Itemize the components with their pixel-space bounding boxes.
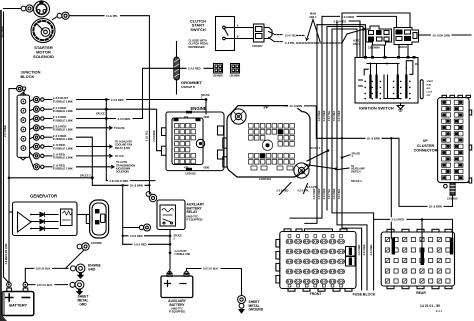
generator winding triangle bbox=[18, 212, 32, 232]
wire bundle v5 bbox=[337, 21, 367, 290]
svg-text:FRONT: FRONT bbox=[310, 292, 323, 296]
aux battery plus bbox=[165, 281, 171, 287]
terminal ring junction block top bbox=[9, 86, 26, 96]
rear connector bus bars bbox=[392, 238, 454, 266]
svg-text:0 4 1: 0 4 1 bbox=[436, 309, 442, 313]
engine 60A pad bbox=[186, 111, 192, 114]
wire junction row 3 2-1.0 RED bbox=[44, 118, 52, 120]
svg-text:20-.8 BRN: 20-.8 BRN bbox=[290, 104, 303, 108]
wire battery positive feed bbox=[4, 12, 9, 283]
svg-text:2-3.0 RED: 2-3.0 RED bbox=[342, 15, 355, 19]
ignition switch left hook bbox=[359, 69, 369, 86]
svg-text:BATTERY: BATTERY bbox=[169, 303, 185, 307]
battery box bbox=[2, 288, 34, 316]
svg-text:BLOCK: BLOCK bbox=[21, 74, 35, 79]
engine inner connector bbox=[172, 118, 205, 165]
svg-text:2-3.0 RED: 2-3.0 RED bbox=[339, 110, 341, 121]
svg-text:SPLICE 2: SPLICE 2 bbox=[351, 180, 362, 183]
svg-text:12045898: 12045898 bbox=[91, 242, 102, 245]
terminal ring junction row 2 bbox=[33, 106, 44, 112]
ignition switch position bracket bbox=[420, 80, 423, 99]
svg-text:FUSIBLE LINK: FUSIBLE LINK bbox=[53, 137, 74, 141]
svg-text:12020163: 12020163 bbox=[185, 173, 196, 176]
splice 2 right of I/P bbox=[307, 151, 328, 162]
faint print artifact bbox=[420, 304, 442, 313]
svg-text:RUN: RUN bbox=[427, 84, 432, 86]
svg-text:A: A bbox=[237, 23, 239, 27]
svg-text:600B: 600B bbox=[204, 116, 210, 119]
svg-text:600B: 600B bbox=[204, 167, 210, 170]
engine connector corner labels bbox=[184, 116, 209, 169]
terminal ring solenoid output bbox=[53, 12, 70, 19]
svg-text:2: 2 bbox=[174, 238, 176, 240]
wire row5 to generator splice bbox=[77, 137, 93, 178]
sheet metal ground symbol bbox=[238, 296, 246, 314]
svg-text:REAR: REAR bbox=[416, 291, 426, 295]
label SHEET METAL GROUND bbox=[249, 300, 264, 312]
svg-text:12034986: 12034986 bbox=[230, 75, 241, 78]
svg-text:2-3.0 RED: 2-3.0 RED bbox=[371, 244, 373, 255]
rear connector body bbox=[381, 229, 454, 288]
terminal node battery positive bbox=[7, 282, 12, 287]
svg-text:2-8 RED FUS LINK: 2-8 RED FUS LINK bbox=[5, 243, 8, 264]
starter motor solenoid upper body bbox=[34, 0, 50, 17]
engine connector outer bbox=[162, 112, 225, 171]
wire junction block feed bbox=[8, 89, 10, 283]
MAN ONLY marker bbox=[297, 12, 321, 42]
wire junction row 1 2-3.0 RUST bbox=[44, 99, 52, 101]
headlamp splice junction bbox=[335, 168, 338, 171]
connector 12010996 bbox=[366, 26, 392, 45]
terminal ring junction row 7 bbox=[33, 153, 44, 159]
svg-text:0.5-0 BLK: 0.5-0 BLK bbox=[334, 110, 336, 121]
svg-text:CONNECTOR: CONNECTOR bbox=[414, 149, 438, 153]
wire 2-8.0 BLK RED bbox=[106, 180, 155, 182]
svg-text:SPLICE 2: SPLICE 2 bbox=[80, 174, 91, 177]
wire top run6 bbox=[332, 29, 357, 58]
svg-text:B: B bbox=[237, 34, 239, 38]
terminal ring solenoid left bbox=[21, 5, 33, 12]
svg-text:GENERATOR: GENERATOR bbox=[30, 194, 58, 199]
svg-text:1A 0 RED: 1A 0 RED bbox=[0, 26, 4, 38]
wire 2-3.0 RED top run2 bbox=[322, 16, 397, 27]
terminal node battery negative bbox=[23, 282, 28, 287]
terminal ring junction row 5 bbox=[33, 134, 44, 140]
svg-text:FUSIBLE LINK: FUSIBLE LINK bbox=[53, 128, 74, 132]
wires switch to connector bbox=[235, 28, 254, 39]
svg-text:SPLICE 2: SPLICE 2 bbox=[310, 147, 321, 150]
svg-text:2-8.0 RED: 2-8.0 RED bbox=[134, 243, 147, 247]
wire 2-8.0 RED upper bbox=[123, 235, 170, 237]
svg-text:100 0.5 BLK: 100 0.5 BLK bbox=[37, 283, 52, 287]
junction block stud holes bbox=[21, 99, 26, 151]
svg-text:FUSIBLE LINK: FUSIBLE LINK bbox=[53, 167, 74, 171]
splice 4 junction bbox=[341, 156, 344, 159]
wire cluster tail bbox=[452, 195, 454, 206]
wire generator output to connector bbox=[77, 214, 87, 216]
terminal ring junction row 4 bbox=[33, 125, 44, 131]
wire bundle v1 bbox=[305, 25, 317, 224]
grommet body bbox=[174, 57, 180, 80]
svg-text:4: 4 bbox=[352, 155, 354, 158]
wire relay feed branch bbox=[122, 185, 124, 244]
terminal ring aux relay top bbox=[146, 192, 157, 202]
splice 2 junction on bundle bbox=[327, 149, 330, 152]
wire junction row 8 2-.8 RED bbox=[44, 166, 52, 168]
switch contacts bbox=[223, 26, 235, 40]
ignition switch lower contacts bbox=[384, 75, 401, 99]
svg-text:2-3.0 RED: 2-3.0 RED bbox=[392, 218, 405, 222]
svg-text:FUSIBLE LINK: FUSIBLE LINK bbox=[175, 254, 191, 256]
bolt sheet metal ground bbox=[77, 289, 82, 294]
wire bundle v2 bbox=[290, 16, 322, 218]
svg-text:12020037 B: 12020037 B bbox=[181, 85, 195, 89]
front connector right boxed cells bbox=[346, 247, 356, 267]
svg-text:2-3.0 RED: 2-3.0 RED bbox=[359, 244, 361, 255]
generator box bbox=[13, 202, 78, 236]
wire through grommet bbox=[176, 41, 178, 94]
svg-text:I/P: I/P bbox=[423, 139, 428, 143]
svg-text:SWITCH: SWITCH bbox=[351, 170, 361, 173]
svg-text:CLUSTER: CLUSTER bbox=[417, 144, 435, 148]
AUTO ONLY marker bbox=[297, 28, 366, 46]
bundle rotated labels bbox=[314, 188, 373, 255]
svg-text:12020164: 12020164 bbox=[259, 177, 271, 181]
svg-text:2-3.0 RED: 2-3.0 RED bbox=[334, 188, 336, 199]
svg-text:12034985: 12034985 bbox=[213, 75, 224, 78]
wire row2 to engine bbox=[77, 109, 162, 151]
battery minus symbol bbox=[22, 297, 29, 299]
svg-text:I/P: I/P bbox=[263, 104, 268, 109]
I/P inner pin grid bbox=[249, 124, 295, 171]
ignition switch box bbox=[355, 58, 418, 104]
svg-text:IF EQUIPPED): IF EQUIPPED) bbox=[169, 310, 185, 313]
svg-text:SPLICE: SPLICE bbox=[352, 152, 361, 155]
engine inner pin grid bbox=[175, 124, 196, 164]
wire bundle v4 bbox=[332, 29, 453, 239]
wire row3 to grommet branch bbox=[77, 68, 143, 118]
svg-text:RELAY: RELAY bbox=[187, 210, 199, 214]
svg-text:2-3.0 RED: 2-3.0 RED bbox=[188, 67, 201, 71]
svg-text:2-8.0 BLK RED: 2-8.0 BLK RED bbox=[110, 179, 129, 183]
svg-text:FUSIBLE LINK: FUSIBLE LINK bbox=[53, 146, 74, 150]
I/P cluster connector body bbox=[438, 95, 472, 183]
svg-text:FUSIBLE LINK: FUSIBLE LINK bbox=[53, 156, 74, 160]
wire row8 TO AUTO TRANSMISSION KICKDOWN SOLENOID bbox=[77, 165, 115, 168]
I/P cluster connector terminals bbox=[442, 100, 463, 180]
svg-text:25-.8 BRN: 25-.8 BRN bbox=[429, 205, 442, 209]
wire generator splice output bbox=[9, 177, 92, 179]
connector 12034917 bbox=[254, 24, 273, 42]
svg-text:12034917: 12034917 bbox=[252, 45, 263, 48]
terminal ring engine ground bbox=[71, 264, 85, 273]
wire I/P bottom 2-5.0 RED bbox=[280, 183, 292, 195]
bolt engine ground bbox=[78, 273, 83, 278]
terminal ring aux relay left bbox=[139, 224, 150, 231]
svg-text:150 3.0 BLK: 150 3.0 BLK bbox=[203, 267, 218, 271]
wire rear bar1 feed bbox=[390, 138, 392, 238]
svg-text:SWITCH: SWITCH bbox=[190, 27, 206, 32]
svg-text:2-3.0 RED: 2-3.0 RED bbox=[111, 98, 124, 102]
aux battery relay box bbox=[157, 200, 185, 230]
front connector body bbox=[276, 229, 356, 291]
label AUXILIARY BATTERY bbox=[168, 299, 186, 313]
svg-text:RELAY (LTR): RELAY (LTR) bbox=[115, 147, 130, 150]
ignition switch top pads bbox=[364, 56, 416, 59]
wire negative to post bbox=[24, 287, 26, 288]
ignition switch contact bars bbox=[369, 75, 407, 99]
generator regulator box bbox=[61, 209, 73, 226]
svg-text:START: START bbox=[427, 80, 434, 83]
label SHEET METAL GRD bbox=[77, 295, 88, 307]
svg-text:2-3.0 RED: 2-3.0 RED bbox=[118, 117, 131, 121]
generator diodes bbox=[30, 212, 58, 230]
wire top run4 bbox=[317, 25, 365, 57]
connector 12034986 bbox=[231, 64, 240, 74]
I/P cluster connector tail bbox=[440, 183, 468, 196]
battery plus symbol bbox=[6, 294, 13, 301]
terminal ring generator bottom bbox=[66, 243, 89, 268]
svg-text:TO A/C: TO A/C bbox=[115, 154, 124, 158]
svg-text:FUSIBLE LINK: FUSIBLE LINK bbox=[53, 109, 74, 113]
svg-text:FUSIBLE LINK: FUSIBLE LINK bbox=[53, 118, 74, 122]
wire solenoid to battery feed bbox=[4, 8, 22, 10]
wire v4 branch down bbox=[373, 219, 375, 290]
svg-text:ACC: ACC bbox=[427, 87, 432, 90]
junction block body bbox=[17, 93, 30, 160]
wire bundle v6 bbox=[342, 13, 362, 290]
wire solenoid output 3 LG PPL bbox=[69, 16, 149, 194]
wire bundle v3 bbox=[326, 27, 328, 211]
wire grommet 2-3.0 RED bbox=[143, 67, 214, 69]
svg-text:GRD: GRD bbox=[79, 303, 87, 307]
svg-text:FUSE BLOCK: FUSE BLOCK bbox=[353, 292, 376, 296]
wire I/P bottom 0.5-0 PPL bbox=[304, 184, 308, 194]
svg-text:IGNITION SWITCH: IGNITION SWITCH bbox=[359, 106, 394, 111]
svg-text:0.5-0 YEL: 0.5-0 YEL bbox=[329, 188, 331, 199]
svg-text:SPLICE: SPLICE bbox=[174, 236, 183, 238]
svg-text:100 32 BLK: 100 32 BLK bbox=[36, 267, 51, 271]
svg-text:2 6 3 RED: 2 6 3 RED bbox=[3, 125, 7, 137]
front connector terminals bbox=[286, 239, 344, 284]
bundle rotated labels upper bbox=[319, 110, 341, 121]
svg-text:30-.8 DK GRN: 30-.8 DK GRN bbox=[433, 34, 451, 38]
wire engine ground 100 32 BLK bbox=[25, 267, 68, 269]
svg-text:25-.8 BRN: 25-.8 BRN bbox=[367, 137, 380, 141]
svg-text:3-3.0 RED: 3-3.0 RED bbox=[324, 110, 326, 121]
terminal ring junction row 3 bbox=[33, 116, 44, 122]
svg-text:0.5-0 BLK: 0.5-0 BLK bbox=[339, 188, 341, 199]
svg-text:ONLY: ONLY bbox=[310, 15, 317, 19]
wire top run5 bbox=[327, 27, 363, 58]
svg-text:LOCK: LOCK bbox=[427, 91, 433, 93]
svg-text:TO ECM: TO ECM bbox=[114, 126, 125, 130]
terminal ring junction row 1 bbox=[33, 97, 44, 103]
terminal ring junction row 6 bbox=[33, 144, 44, 150]
scan border left bbox=[0, 10, 2, 317]
wire junction row 5 2-3.0 RED bbox=[44, 136, 52, 138]
splice column bbox=[105, 100, 107, 181]
svg-text:2-8.0 RED: 2-8.0 RED bbox=[130, 234, 143, 238]
wire junction row 4 2-3.0 RED bbox=[44, 127, 52, 129]
wire 0.5-0 YEL bbox=[269, 32, 274, 34]
wire row7 TO A/C bbox=[77, 155, 113, 158]
svg-text:3 LG PPL: 3 LG PPL bbox=[106, 14, 118, 18]
ignition switch bus bbox=[367, 63, 399, 65]
svg-text:2-3.0 RUST: 2-3.0 RUST bbox=[175, 251, 188, 253]
wire 25-.8 BRN mid bbox=[92, 178, 149, 186]
wire row6 TO AUXILIARY COOLING FAN RELAY bbox=[77, 145, 113, 148]
svg-text:IF EQUIPPED): IF EQUIPPED) bbox=[187, 219, 203, 222]
wire I/P ear to headlamp splice bbox=[305, 165, 336, 169]
connector 5294941 bbox=[394, 28, 419, 45]
wire top run3 bbox=[337, 21, 360, 58]
ignition switch dot matrix bbox=[365, 81, 411, 100]
wire junction row 7 3-.8 RED bbox=[44, 155, 52, 157]
wire row4 TO ECM bbox=[77, 126, 113, 129]
svg-text:0.5-0 YEL: 0.5-0 YEL bbox=[329, 110, 331, 121]
terminal ring junction row 8 bbox=[33, 164, 44, 170]
svg-text:2-3.0 RED: 2-3.0 RED bbox=[319, 110, 321, 121]
wire sheet metal ground 100 0.5 BLK bbox=[28, 284, 68, 286]
svg-text:SOLENOID: SOLENOID bbox=[33, 54, 54, 59]
front connector top pin row bbox=[288, 235, 342, 287]
svg-text:GROMMET: GROMMET bbox=[181, 80, 202, 85]
wire junction row 6 2-.8 RED bbox=[44, 146, 52, 148]
aux battery minus bbox=[180, 283, 186, 285]
rear connector terminals bbox=[385, 237, 450, 283]
wire generator to feed bbox=[9, 211, 13, 213]
wire relay left to splice bbox=[123, 227, 140, 229]
I/P connector outer bbox=[223, 106, 310, 178]
wire 20-.8 BRN from I/P bbox=[285, 106, 453, 206]
ground symbol ignition bbox=[397, 103, 404, 111]
svg-text:SOLENOID: SOLENOID bbox=[116, 171, 129, 174]
svg-text:BATTERY: BATTERY bbox=[9, 303, 27, 308]
label CLUTCH START SWITCH bbox=[190, 19, 206, 32]
svg-text:47B: 47B bbox=[184, 167, 189, 170]
wire 0-.8 PPL bbox=[269, 38, 274, 42]
connector 12034985 bbox=[214, 64, 223, 74]
wire 2-8.0 RED lower bbox=[123, 243, 170, 245]
svg-text:GRD: GRD bbox=[88, 267, 96, 271]
svg-text:3 LG YEL: 3 LG YEL bbox=[145, 130, 148, 141]
svg-text:0-.8 PPL: 0-.8 PPL bbox=[285, 42, 295, 45]
wire 2-3.0 RED top run1 bbox=[342, 13, 410, 28]
svg-text:2-3.0 RED: 2-3.0 RED bbox=[334, 19, 347, 23]
svg-text:SPLICE 2: SPLICE 2 bbox=[96, 113, 107, 116]
svg-text:MAN: MAN bbox=[310, 12, 316, 16]
clutch start switch box bbox=[216, 17, 235, 51]
label I/P CLUSTER CONNECTOR bbox=[414, 139, 438, 153]
svg-text:2-3.0 RED: 2-3.0 RED bbox=[364, 244, 366, 255]
svg-text:2-3.0 RED: 2-3.0 RED bbox=[314, 188, 316, 199]
wire 30-.8 DK GRN bbox=[419, 34, 432, 36]
label STARTER MOTOR SOLENOID bbox=[33, 45, 54, 59]
svg-text:0.5-0 YEL: 0.5-0 YEL bbox=[285, 35, 297, 38]
svg-text:2-5.0 RED: 2-5.0 RED bbox=[277, 188, 289, 192]
label JUNCTION BLOCK bbox=[21, 70, 41, 80]
svg-text:25-.8 BRN: 25-.8 BRN bbox=[130, 184, 143, 188]
starter motor solenoid main body bbox=[31, 19, 55, 43]
svg-text:ENGINE: ENGINE bbox=[191, 106, 207, 111]
svg-text:GROUND: GROUND bbox=[249, 308, 264, 312]
svg-text:3-3.0 RED: 3-3.0 RED bbox=[324, 188, 326, 199]
svg-text:12010996A: 12010996A bbox=[368, 47, 380, 50]
wire row1 to splice 1 bbox=[77, 100, 207, 115]
svg-text:2-3.0 RED: 2-3.0 RED bbox=[319, 188, 321, 199]
junction block row leads bbox=[30, 100, 34, 167]
wires connectors to ignition switch bbox=[372, 45, 408, 58]
label AUXILIARY BATTERY RELAY bbox=[187, 203, 205, 215]
ignition switch bar feeds bbox=[371, 64, 407, 75]
svg-text:OFF: OFF bbox=[427, 95, 432, 97]
svg-text:DEPRESSED: DEPRESSED bbox=[189, 45, 205, 49]
svg-text:2-3.0 RED: 2-3.0 RED bbox=[153, 130, 156, 141]
bottom-left corner artifact bbox=[0, 313, 7, 321]
auxiliary battery box bbox=[161, 271, 193, 297]
terminal ring sheet metal ground bbox=[70, 280, 84, 289]
wire rear bar2 feed bbox=[421, 219, 423, 252]
svg-text:14 21 01 - 50: 14 21 01 - 50 bbox=[420, 304, 440, 308]
wire 150 2.0 BLK bbox=[187, 269, 242, 296]
svg-text:0.5-0 PPL: 0.5-0 PPL bbox=[307, 185, 319, 189]
svg-text:SPLICE: SPLICE bbox=[201, 94, 210, 97]
generator connector bbox=[86, 200, 108, 238]
svg-text:FUSIBLE LINK: FUSIBLE LINK bbox=[53, 99, 74, 103]
wire junction row 2 2-1.0 RED bbox=[44, 108, 52, 110]
splice 2 on generator feed bbox=[8, 177, 11, 180]
splice column aux battery bbox=[169, 230, 172, 274]
